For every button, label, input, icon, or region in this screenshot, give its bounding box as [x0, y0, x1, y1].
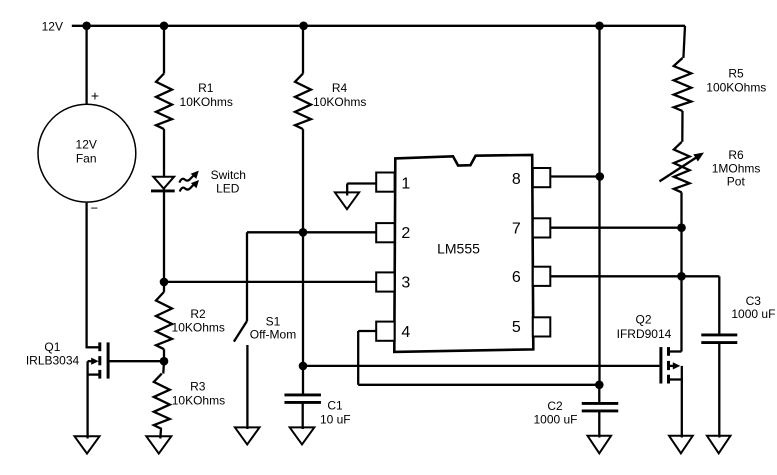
svg-text:100KOhms: 100KOhms	[706, 80, 766, 94]
svg-text:Switch: Switch	[211, 168, 246, 182]
svg-text:10KOhms: 10KOhms	[172, 393, 225, 407]
svg-text:5: 5	[512, 319, 521, 336]
svg-text:IFRD9014: IFRD9014	[617, 327, 672, 341]
svg-text:LED: LED	[216, 181, 240, 195]
svg-text:+: +	[91, 88, 99, 104]
svg-text:R6: R6	[728, 148, 744, 162]
svg-text:10KOhms: 10KOhms	[180, 95, 233, 109]
svg-text:Fan: Fan	[76, 151, 97, 165]
svg-text:Q2: Q2	[635, 313, 651, 327]
svg-text:1MOhms: 1MOhms	[712, 162, 761, 176]
svg-text:Q1: Q1	[44, 340, 60, 354]
svg-text:10KOhms: 10KOhms	[313, 95, 366, 109]
svg-text:C2: C2	[547, 399, 563, 413]
svg-text:R2: R2	[190, 307, 206, 321]
svg-text:10KOhms: 10KOhms	[172, 321, 225, 335]
svg-text:8: 8	[512, 171, 521, 188]
svg-text:1: 1	[401, 176, 410, 193]
svg-text:7: 7	[512, 221, 521, 238]
svg-text:R1: R1	[198, 81, 214, 95]
svg-text:2: 2	[401, 225, 410, 242]
svg-text:IRLB3034: IRLB3034	[26, 354, 80, 368]
svg-text:S1: S1	[266, 314, 281, 328]
svg-text:R4: R4	[332, 81, 348, 95]
svg-text:6: 6	[512, 269, 521, 286]
svg-text:C1: C1	[327, 399, 343, 413]
svg-text:R5: R5	[728, 66, 744, 80]
svg-text:LM555: LM555	[437, 241, 480, 257]
svg-text:3: 3	[401, 274, 410, 291]
svg-text:12V: 12V	[42, 20, 63, 34]
svg-text:R3: R3	[190, 380, 206, 394]
svg-text:1000 uF: 1000 uF	[731, 307, 775, 321]
svg-text:10 uF: 10 uF	[320, 412, 351, 426]
svg-text:1000 uF: 1000 uF	[533, 413, 577, 427]
svg-text:4: 4	[401, 324, 410, 341]
svg-text:Off-Mom: Off-Mom	[250, 328, 296, 342]
svg-text:−: −	[91, 201, 99, 216]
svg-text:Pot: Pot	[727, 175, 746, 189]
svg-text:12V: 12V	[76, 138, 97, 152]
